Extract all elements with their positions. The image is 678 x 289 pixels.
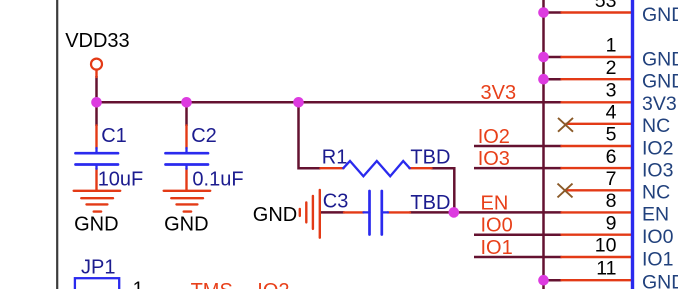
svg-text:9: 9 — [606, 212, 617, 234]
svg-text:C1: C1 — [101, 125, 127, 147]
svg-text:5: 5 — [606, 124, 617, 146]
svg-text:3V3: 3V3 — [642, 93, 677, 115]
svg-text:R1: R1 — [322, 147, 348, 169]
svg-text:IO3: IO3 — [642, 159, 673, 181]
svg-text:NC: NC — [642, 115, 670, 137]
svg-text:GND: GND — [642, 71, 678, 93]
svg-text:4: 4 — [606, 102, 617, 124]
svg-text:GND: GND — [642, 271, 678, 289]
svg-text:EN: EN — [642, 204, 669, 226]
svg-text:3V3: 3V3 — [481, 82, 517, 104]
svg-text:IO3: IO3 — [478, 148, 510, 170]
svg-text:IO1: IO1 — [642, 248, 673, 270]
svg-text:GND: GND — [164, 214, 208, 236]
svg-text:53: 53 — [595, 0, 617, 12]
svg-text:GND: GND — [253, 204, 297, 226]
svg-text:IO2: IO2 — [478, 126, 510, 148]
svg-text:IO2: IO2 — [257, 280, 289, 289]
svg-text:3: 3 — [606, 80, 617, 102]
svg-text:11: 11 — [596, 258, 616, 280]
svg-text:JP1: JP1 — [81, 256, 115, 278]
svg-text:GND: GND — [642, 48, 678, 70]
svg-text:6: 6 — [606, 146, 617, 168]
svg-text:10uF: 10uF — [98, 168, 144, 190]
svg-text:GND: GND — [642, 4, 678, 26]
svg-text:TBD: TBD — [410, 147, 450, 169]
svg-text:IO0: IO0 — [481, 215, 513, 237]
svg-text:C3: C3 — [323, 191, 349, 213]
svg-text:8: 8 — [606, 190, 617, 212]
svg-text:IO2: IO2 — [642, 137, 673, 159]
svg-text:10: 10 — [595, 235, 617, 257]
svg-text:1: 1 — [133, 278, 144, 289]
svg-text:0.1uF: 0.1uF — [192, 168, 243, 190]
svg-text:EN: EN — [481, 192, 509, 214]
svg-text:GND: GND — [74, 214, 118, 236]
svg-text:IO1: IO1 — [481, 237, 513, 259]
svg-text:2: 2 — [606, 57, 617, 79]
svg-text:7: 7 — [606, 168, 617, 190]
svg-text:VDD33: VDD33 — [65, 30, 129, 52]
svg-text:C2: C2 — [191, 125, 217, 147]
svg-text:TMS: TMS — [191, 280, 233, 289]
svg-text:TBD: TBD — [410, 192, 450, 214]
svg-text:1: 1 — [606, 35, 617, 57]
svg-text:IO0: IO0 — [642, 226, 674, 248]
svg-text:NC: NC — [642, 182, 670, 204]
